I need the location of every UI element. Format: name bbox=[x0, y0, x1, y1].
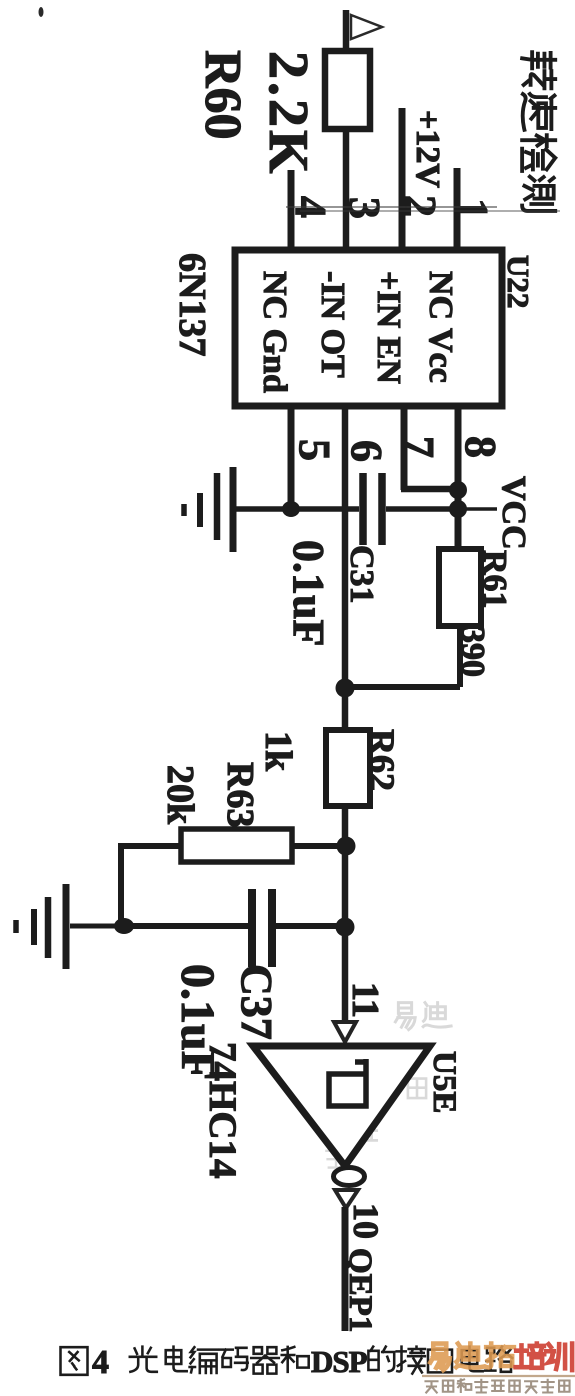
node C37/main line bbox=[336, 918, 355, 937]
svg-text:5: 5 bbox=[290, 439, 339, 461]
svg-text:-IN OT: -IN OT bbox=[314, 271, 351, 378]
wire main line to inverter input bbox=[342, 846, 349, 1020]
svg-text:R61: R61 bbox=[476, 550, 513, 609]
wire ground node to C37 bbox=[124, 923, 248, 929]
scan streaks bbox=[286, 206, 497, 208]
wire to ground2 bbox=[70, 924, 121, 929]
node pin5/ground bbox=[282, 501, 300, 517]
wire U22 pin8 Vcc bbox=[455, 406, 462, 552]
svg-text:8: 8 bbox=[456, 436, 505, 458]
svg-text:DSP: DSP bbox=[311, 1344, 368, 1379]
wire +12V to U22 pin2 bbox=[399, 108, 406, 251]
wire U22 pin7 bbox=[401, 406, 408, 490]
node VCC rail bbox=[449, 500, 467, 518]
resistor R61 bbox=[439, 549, 481, 626]
svg-text:6: 6 bbox=[342, 440, 391, 462]
svg-text:3: 3 bbox=[340, 197, 389, 219]
svg-text:74HC14: 74HC14 bbox=[201, 1042, 244, 1179]
svg-text:U22: U22 bbox=[501, 255, 536, 308]
wire VCC stub bbox=[462, 507, 497, 511]
ground symbol (RC filter) bbox=[63, 884, 70, 969]
optocoupler U22 6N137 box bbox=[235, 250, 502, 406]
svg-text:1k: 1k bbox=[257, 731, 299, 772]
resistor R62 bbox=[326, 730, 370, 806]
wire U22 pin5 to ground rail bbox=[288, 406, 295, 509]
wire U22 pin1 stub bbox=[454, 168, 461, 251]
node ground corner bbox=[114, 918, 134, 934]
node R62/R63 bbox=[337, 837, 356, 856]
input arrowhead bbox=[334, 1022, 356, 1042]
wire R62 to node bbox=[342, 806, 349, 850]
watermark logo 易迪拓培训 bbox=[430, 1344, 572, 1371]
svg-text:NC Gnd: NC Gnd bbox=[256, 271, 293, 393]
svg-text:NC Vcc: NC Vcc bbox=[422, 271, 459, 383]
svg-text:C31: C31 bbox=[343, 545, 380, 604]
svg-text:R60: R60 bbox=[194, 50, 251, 140]
wire pin7 to pin8 jumper bbox=[401, 486, 458, 493]
wire C31 to VCC node bbox=[386, 506, 458, 512]
wire R63 to ground corner bbox=[124, 843, 181, 849]
wire inverter output QEP1 bbox=[342, 1207, 349, 1331]
wire C37 to main node bbox=[276, 923, 345, 929]
wire R61 to output node bbox=[457, 626, 463, 687]
input arrow / signal flag bbox=[343, 10, 350, 52]
svg-text:10: 10 bbox=[346, 1203, 386, 1239]
scan speck bbox=[39, 7, 44, 17]
svg-text:1: 1 bbox=[448, 198, 497, 220]
node pin7/pin8 bbox=[449, 481, 467, 499]
wire ground to pin5 bbox=[236, 506, 291, 512]
svg-text:VCC: VCC bbox=[495, 476, 532, 550]
capacitor C31 bbox=[359, 473, 367, 545]
svg-text:QEP1: QEP1 bbox=[342, 1248, 378, 1332]
svg-text:11: 11 bbox=[344, 982, 386, 1018]
label 转速检测 (speed detection) bbox=[522, 52, 555, 88]
inverter U5E 74HC14 triangle bbox=[253, 1046, 430, 1166]
inversion bubble bbox=[334, 1168, 365, 1186]
svg-text:C37: C37 bbox=[232, 964, 281, 1040]
wire R60 to U22 pin3 bbox=[343, 129, 350, 251]
svg-text:U5E: U5E bbox=[426, 1051, 462, 1113]
wire node to R62 bbox=[342, 688, 349, 732]
caption 图4 光电编码器和DSP的接口电路 bbox=[61, 1344, 513, 1381]
output arrowhead bbox=[335, 1190, 358, 1208]
watermark underline bbox=[422, 1375, 575, 1377]
wire U22 pin6 output bbox=[342, 406, 349, 690]
svg-text:4: 4 bbox=[92, 1344, 109, 1381]
svg-text:7: 7 bbox=[394, 436, 443, 458]
resistor R63 bbox=[181, 829, 292, 862]
svg-text:0.1uF: 0.1uF bbox=[284, 540, 333, 646]
ground symbol (pin5) bbox=[230, 467, 237, 552]
svg-text:+IN EN: +IN EN bbox=[370, 271, 407, 384]
node output/pullup junction bbox=[336, 679, 355, 698]
svg-text:R62: R62 bbox=[362, 729, 402, 791]
svg-text:20k: 20k bbox=[159, 765, 201, 825]
watermark tagline 射频和天线设计专家 bbox=[426, 1379, 570, 1392]
wire pin5 node to C31 bbox=[291, 506, 359, 512]
svg-text:6N137: 6N137 bbox=[171, 253, 213, 356]
capacitor C37 bbox=[248, 889, 256, 967]
svg-text:R63: R63 bbox=[219, 762, 261, 827]
faint ghost watermark marks bbox=[326, 1003, 451, 1168]
wire U22 pin4 stub bbox=[288, 170, 295, 251]
svg-text:2: 2 bbox=[396, 195, 445, 217]
resistor R60 bbox=[325, 51, 370, 129]
schmitt hysteresis symbol bbox=[329, 1059, 366, 1106]
wire node to R63 bbox=[292, 843, 346, 849]
svg-text:+12V: +12V bbox=[409, 110, 446, 188]
svg-text:2.2K: 2.2K bbox=[257, 51, 319, 177]
